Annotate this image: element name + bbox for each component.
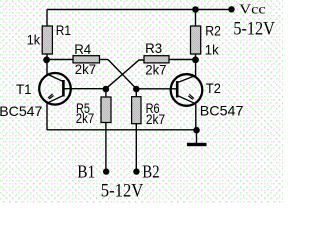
svg-text:2k7: 2k7 <box>145 61 166 77</box>
wire collector T1 <box>46 60 48 75</box>
svg-text:BC547: BC547 <box>0 103 43 119</box>
svg-text:B1: B1 <box>77 162 95 182</box>
wire diagonal R4 to T2 base node <box>108 60 136 89</box>
svg-text:T1: T1 <box>16 81 32 97</box>
junction dot emitters / ground <box>193 127 200 134</box>
svg-text:B2: B2 <box>142 162 159 182</box>
junction dot node A (R1/R4/T1 collector) <box>43 56 50 63</box>
wire R2 top lead <box>195 10 197 27</box>
resistor R5 body <box>101 97 111 123</box>
resistor R2 body <box>191 26 201 54</box>
terminal B2 <box>133 168 139 174</box>
wire emitter bus <box>47 129 197 131</box>
svg-text:R3: R3 <box>145 40 162 56</box>
resistor R3 body <box>144 56 169 63</box>
terminal Vcc <box>228 6 234 12</box>
junction dot T2 base / R6 <box>133 86 140 93</box>
wire ground stem <box>196 130 198 143</box>
wire Vcc top rail <box>47 9 232 11</box>
svg-text:1k: 1k <box>27 32 41 48</box>
transistor T1 <box>39 73 71 105</box>
svg-text:R4: R4 <box>74 41 91 57</box>
svg-text:2k7: 2k7 <box>76 110 95 126</box>
wire base T2 <box>136 88 176 90</box>
resistor R1 body <box>42 26 52 54</box>
wire R2 bottom lead <box>195 54 197 61</box>
wire R6 bottom lead to B2 <box>135 124 137 170</box>
wire node A to R4 <box>47 59 73 61</box>
wire collector T2 <box>195 60 197 76</box>
svg-text:R2: R2 <box>205 23 221 39</box>
wire R4 to diagonal stub <box>100 59 109 61</box>
svg-text:BC547: BC547 <box>200 102 244 118</box>
ground <box>187 143 207 146</box>
wire emitter T2 down <box>195 104 197 130</box>
wire R5 bottom lead to B1 <box>105 123 107 170</box>
svg-text:R1: R1 <box>56 22 71 38</box>
svg-text:5-12V: 5-12V <box>101 181 144 202</box>
wire R1 top lead <box>46 10 48 27</box>
svg-text:5-12V: 5-12V <box>233 19 275 40</box>
junction dot T1 base / R5 <box>103 86 110 93</box>
svg-text:2k7: 2k7 <box>146 111 165 127</box>
resistor R6 body <box>132 97 141 124</box>
svg-text:T2: T2 <box>206 80 221 96</box>
wire emitter T1 down <box>46 104 48 131</box>
terminal B1 <box>103 168 109 174</box>
svg-text:Vcc: Vcc <box>239 3 265 18</box>
wire R6 top lead <box>135 89 137 97</box>
svg-text:2k7: 2k7 <box>75 61 97 77</box>
resistor R4 body <box>73 56 100 63</box>
wire R1 bottom lead <box>46 54 48 61</box>
wire R3 to node B <box>169 59 196 61</box>
junction dot top rail / R2 <box>192 6 199 13</box>
wire base T1 <box>64 88 106 90</box>
wire diagonal T1 base node to R3 <box>106 60 144 89</box>
wire R5 top lead <box>105 89 107 97</box>
transistor T2 <box>171 74 203 106</box>
svg-text:1k: 1k <box>205 41 220 57</box>
junction dot node B (R2/R3/T2 collector) <box>192 56 199 63</box>
